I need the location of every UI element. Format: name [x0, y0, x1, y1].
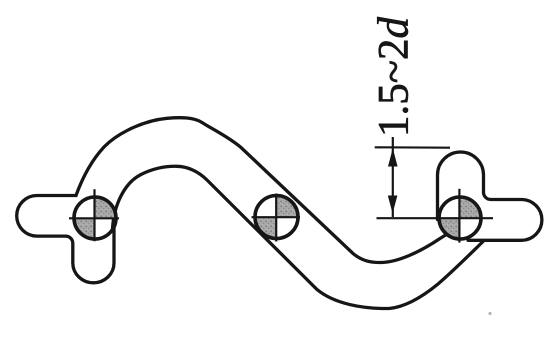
cross-section left: circle — [74, 197, 116, 239]
cross-section right: circle — [439, 197, 481, 239]
dimension: top extension line — [375, 146, 450, 149]
dimension: vertical dimension line — [392, 137, 394, 217]
cross-section right: vertical center line — [458, 189, 460, 243]
cross-section middle: center lines — [252, 194, 301, 242]
wire: right end upward lead (rounded stub) and right lead outline — [438, 152, 542, 240]
wire: upper outline (hump top, diagonal, valley inner curve) — [76, 118, 452, 263]
cross-section left: shaded quadrants — [95, 197, 116, 218]
cross-section left: center lines — [69, 189, 119, 241]
speck (paper mark) — [488, 312, 491, 315]
wire: left end lead (capsule pointing left) and downward lead outline — [17, 196, 114, 283]
dimension: lower arrowhead — [388, 196, 398, 214]
cross-section middle: shaded quadrants — [277, 196, 299, 218]
dimension: upper arrowhead — [388, 148, 398, 166]
dimension: bottom extension line (through right cross-section center) — [377, 217, 494, 219]
cross-section middle: circle — [255, 196, 298, 239]
wire: lower outline (hump inner curve, diagonal, valley bottom curve) — [113, 166, 484, 308]
svg-text:1.5~2d: 1.5~2d — [371, 16, 418, 137]
cross-section right: shaded quadrants — [460, 197, 481, 218]
